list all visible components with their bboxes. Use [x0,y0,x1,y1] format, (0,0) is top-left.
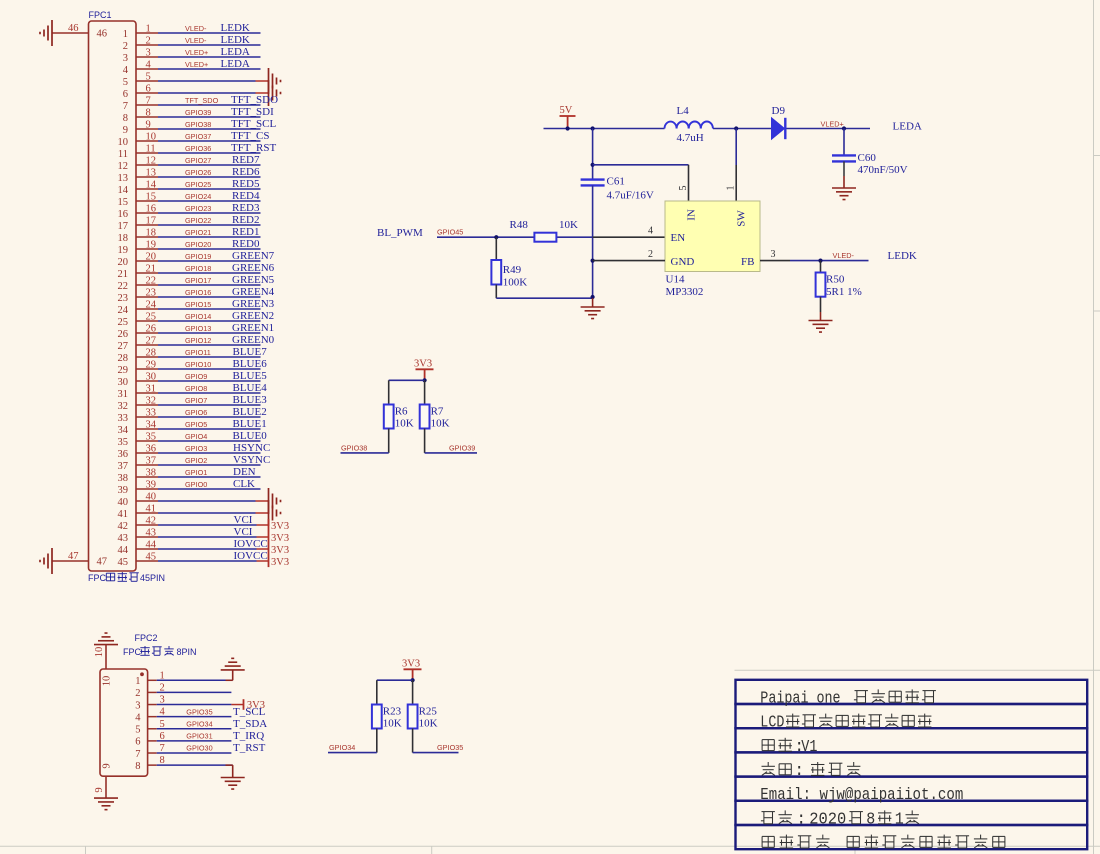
port IOVCC [234,538,268,550]
port RED4 [232,190,260,202]
svg-text:BLUE7: BLUE7 [233,346,268,358]
R49 value 100K [503,277,528,289]
port T_SCL [233,706,266,718]
ground above FPC2 pin 1 (inverted) [221,658,245,680]
svg-text:9: 9 [123,125,128,136]
U14 pin 5 (IN) [678,165,689,201]
svg-text:RED1: RED1 [232,226,260,238]
R50 value 5R1 1% [826,286,862,298]
FPC2 pin 7 wire [148,752,232,754]
port BLUE0 [233,430,268,442]
svg-text:36: 36 [118,449,129,460]
C60 label [858,152,877,164]
svg-text:GPIO30: GPIO30 [186,744,212,753]
FPC1 pin 15 number [118,192,157,208]
svg-text:TFT_RST: TFT_RST [231,142,277,154]
svg-text:21: 21 [118,269,129,280]
FPC1 pin 38 number [118,468,157,484]
svg-text:4: 4 [160,707,166,718]
FPC1 pin 13 number [118,168,157,184]
svg-text:T_RST: T_RST [233,742,266,754]
svg-text:14: 14 [118,185,129,196]
ground (sideways) [269,68,281,94]
FPC2 pin 6 number [135,731,165,748]
port GREEN5 [232,274,275,286]
wire below C61 [592,185,594,298]
svg-text:GPIO8: GPIO8 [185,384,207,393]
FPC1 pin 41 wire [136,512,269,514]
R48 value 10K [559,219,578,231]
FPC2 pin 5 wire [148,728,232,730]
ground under C60 [832,176,856,200]
net label GPIO30 [186,744,212,753]
svg-text:1: 1 [160,670,165,681]
port VSYNC [233,454,270,466]
net label VLED+ [185,48,208,57]
net label GPIO35 [437,743,463,752]
svg-text:27: 27 [118,341,129,352]
svg-text:2: 2 [648,249,653,260]
svg-text:23: 23 [146,288,157,299]
net label GPIO45 [437,228,463,237]
svg-text:RED2: RED2 [232,214,260,226]
resistor R49 [491,237,501,298]
svg-text:28: 28 [146,348,157,359]
resistor R7 [420,380,430,453]
C60 value 470nF/50V [858,164,908,176]
FPC1 pin 23 number [118,288,157,304]
svg-text:42: 42 [118,521,129,532]
svg-text:GREEN7: GREEN7 [232,250,275,262]
port TFT_SDI [231,106,274,118]
wire R49 bottom to ground rail [496,295,594,299]
U14 pin 4 number [648,226,653,237]
svg-text:BLUE3: BLUE3 [233,394,268,406]
svg-text:DEN: DEN [233,466,256,478]
FPC2 pin 2 number [135,682,165,699]
net label GPIO23 [185,204,211,213]
title row 5: Email wjw@paipaiiot.com [760,785,963,804]
FPC1 pin 22 wire [136,284,261,286]
net label GPIO26 [185,168,211,177]
svg-text:7: 7 [123,101,128,112]
svg-text:T_IRQ: T_IRQ [233,730,264,742]
power 3V3 [269,543,290,556]
FPC1 pin 34 number [118,420,157,436]
net label VLED- [833,251,855,260]
svg-text:9: 9 [102,763,113,768]
svg-text:3: 3 [160,695,165,706]
svg-text:CLK: CLK [233,478,255,490]
FPC1 pin 33 number [118,408,157,424]
svg-text:VLED-: VLED- [833,251,855,260]
port BL_PWM [377,227,423,239]
svg-text:VLED+: VLED+ [185,60,208,69]
svg-text:17: 17 [118,221,129,232]
svg-text:GPIO19: GPIO19 [185,252,211,261]
svg-text:R25: R25 [419,706,438,718]
svg-text:FB: FB [741,256,754,268]
svg-text:46: 46 [68,23,79,34]
net label GPIO37 [185,132,211,141]
svg-text:R50: R50 [826,274,845,286]
svg-text:GPIO13: GPIO13 [185,324,211,333]
svg-text:IOVCC: IOVCC [234,550,268,562]
svg-text:37: 37 [118,461,129,472]
svg-text:GPIO34: GPIO34 [186,719,212,728]
svg-text:4: 4 [123,65,129,76]
svg-text:R7: R7 [431,406,444,418]
svg-text:BLUE0: BLUE0 [233,430,268,442]
wire 3V3 to R23 [377,679,413,681]
FPC1 pin 27 number [118,336,157,352]
svg-text:3V3: 3V3 [402,659,420,670]
svg-text:U14: U14 [666,274,685,286]
net label GPIO11 [185,348,211,357]
svg-text:FPC: FPC [123,647,142,657]
connector FPC1 body [89,21,137,571]
svg-text:34: 34 [146,420,157,431]
FPC1 pin 2 wire [136,44,261,46]
FPC1 pin 37 number [118,456,157,472]
port GREEN6 [232,262,275,274]
FPC1 pin 2 number [123,36,151,52]
svg-text:GPIO39: GPIO39 [185,108,211,117]
svg-text:LEDA: LEDA [893,121,922,133]
power 3V3 [269,519,290,532]
title row 4: author [762,761,861,780]
svg-text:GPIO0: GPIO0 [185,480,207,489]
svg-text:GPIO38: GPIO38 [341,443,367,452]
svg-text:20: 20 [146,252,157,263]
net label GPIO39 [449,443,475,452]
svg-text:GPIO2: GPIO2 [185,456,207,465]
net label GPIO34 [186,719,212,728]
port TFT_RST [231,142,277,154]
svg-text:RED5: RED5 [232,178,260,190]
net label GPIO16 [185,288,211,297]
FPC2 pin 4 wire [148,716,232,718]
FPC2 pin 8 wire [148,764,233,766]
FPC2 pin 5 number [135,719,165,736]
svg-text:10: 10 [102,676,113,687]
svg-text:TFT_SDO: TFT_SDO [231,94,278,106]
svg-text:1: 1 [146,24,151,35]
svg-text:29: 29 [118,365,129,376]
svg-text:24: 24 [118,305,129,316]
svg-text:VCI: VCI [234,526,253,538]
svg-text:10: 10 [146,132,157,143]
port GREEN0 [232,334,275,346]
FPC1 pin 1 wire [136,32,261,34]
svg-text:41: 41 [146,504,157,515]
svg-text:21: 21 [146,264,157,275]
svg-text:8: 8 [146,108,151,119]
FPC2 inside pin 9 number [102,763,113,768]
net label VLED- [185,24,207,33]
FPC1 pin 11 wire [136,152,261,154]
FPC1 pin 9 wire [136,128,261,130]
port BLUE2 [233,406,267,418]
ground (sideways) [269,80,281,106]
FPC2 pin 1 marker dot [140,672,144,676]
svg-text:IOVCC: IOVCC [234,538,268,550]
svg-text:22: 22 [118,281,129,292]
svg-text:4: 4 [135,712,141,723]
svg-text:TFT_CS: TFT_CS [231,130,270,142]
svg-text:31: 31 [118,389,129,400]
svg-text::: : [796,809,806,828]
svg-text:TFT_SDO: TFT_SDO [185,96,219,105]
port BLUE3 [233,394,268,406]
svg-text:GPIO35: GPIO35 [437,743,463,752]
port TFT_SCL [231,118,277,130]
FPC1 pin 7 number [123,96,151,112]
FPC1 pin 32 number [118,396,157,412]
U14 pin 2 (GND) wire [591,249,666,263]
svg-text:18: 18 [146,228,157,239]
svg-text:43: 43 [118,533,129,544]
svg-text:11: 11 [118,149,128,160]
svg-text:10K: 10K [395,418,414,430]
FPC1 pin 29 number [118,360,157,376]
svg-text:32: 32 [118,401,129,412]
svg-text:6: 6 [135,737,140,748]
svg-text:GPIO23: GPIO23 [185,204,211,213]
FPC2 pin 3 wire [148,704,244,706]
U14 value MP3302 [666,286,704,298]
net label GPIO14 [185,312,211,321]
junction C61 branch [591,126,595,130]
svg-text:13: 13 [118,173,129,184]
net label GPIO5 [185,420,207,429]
FPC1 pin 30 number [118,372,157,388]
svg-text:L4: L4 [677,105,690,117]
svg-text:38: 38 [118,473,129,484]
svg-text:V1: V1 [801,737,817,756]
net label GPIO21 [185,228,211,237]
port T_SDA [233,718,267,730]
svg-text:BLUE4: BLUE4 [233,382,268,394]
svg-text:GPIO36: GPIO36 [185,144,211,153]
net label GPIO4 [185,432,207,441]
svg-text:5: 5 [678,186,689,191]
L4 value 4.7uH [677,132,704,144]
svg-text:VCI: VCI [234,514,253,526]
svg-text:5: 5 [160,719,165,730]
FPC1 pin 40 wire [136,500,269,502]
ground (left) [40,548,52,574]
svg-text:32: 32 [146,396,157,407]
svg-text:18: 18 [118,233,129,244]
svg-text:25: 25 [118,317,129,328]
R23 value 10K [383,718,402,730]
svg-text:4.7uH: 4.7uH [677,132,704,144]
svg-text:GPIO35: GPIO35 [186,707,212,716]
FPC1 pin 5 number [123,72,151,88]
svg-text:2: 2 [160,682,165,693]
svg-text:43: 43 [146,528,157,539]
net label GPIO1 [185,468,207,477]
svg-text:4: 4 [648,226,653,237]
FPC2 pin 7 number [135,743,165,760]
svg-text:46: 46 [97,29,108,40]
port CLK [233,478,255,490]
wire 5V rail [544,128,871,130]
svg-text:GPIO15: GPIO15 [185,300,211,309]
FPC1 pin 28 wire [136,356,261,358]
svg-text:41: 41 [118,509,129,520]
net label GPIO10 [185,360,211,369]
title block frame [736,680,1088,849]
port RED6 [232,166,260,178]
svg-text:3: 3 [146,48,151,59]
FPC1 pin 17 number [118,216,157,232]
net label GPIO18 [185,264,211,273]
svg-text:24: 24 [146,300,157,311]
svg-text:GPIO1: GPIO1 [185,468,207,477]
svg-text:3: 3 [135,700,140,711]
svg-text:3V3: 3V3 [271,557,289,568]
FPC1 pin 21 number [118,264,157,280]
svg-text:11: 11 [146,144,156,155]
connector FPC2 body [100,669,148,776]
svg-text:14: 14 [146,180,157,191]
ground (left) [40,20,52,46]
net label VLED+ [821,119,844,128]
power 3V3 (R6/R7) [414,359,434,383]
net label GPIO36 [185,144,211,153]
svg-text:10K: 10K [383,718,402,730]
svg-text:3V3: 3V3 [271,545,289,556]
port RED7 [232,154,260,166]
svg-text:D9: D9 [772,105,786,117]
svg-text:GPIO9: GPIO9 [185,372,207,381]
svg-text:VSYNC: VSYNC [233,454,270,466]
svg-text:2020: 2020 [809,809,846,828]
svg-text:25: 25 [146,312,157,323]
U14 pin 1 (SW) [726,129,737,202]
capacitor C60 [832,129,856,177]
svg-text:26: 26 [146,324,157,335]
FPC2 pin 3 number [135,695,165,712]
power 3V3 [269,531,290,544]
FPC1 pin 3 wire [136,56,261,58]
R23 label [383,706,402,718]
net label GPIO9 [185,372,207,381]
svg-text:2: 2 [123,41,128,52]
title row 3: version V1 [762,737,817,756]
FPC2 pin 1 wire [148,679,233,681]
net label GPIO0 [185,480,207,489]
net label GPIO39 [185,108,211,117]
svg-text:33: 33 [118,413,129,424]
FPC2 pin 4 number [135,707,165,724]
ground (sideways) [269,488,281,514]
op-amp U14 MP3302 body [665,201,760,272]
svg-text:BL_PWM: BL_PWM [377,227,423,239]
svg-text:R49: R49 [503,264,522,276]
svg-text:35: 35 [118,437,129,448]
svg-text:GPIO6: GPIO6 [185,408,207,417]
svg-text:47: 47 [97,557,108,568]
FPC1 pin 32 wire [136,404,261,406]
port LEDA [893,121,922,133]
title row 1: Paipai one (device schematic) [760,688,936,707]
net label GPIO22 [185,216,211,225]
FPC1 pin 39 number [118,480,157,496]
port LEDK [221,34,250,46]
svg-text:TFT_SDI: TFT_SDI [231,106,274,118]
port BLUE7 [233,346,268,358]
svg-text:GPIO16: GPIO16 [185,288,211,297]
FPC1 pin 45 number [118,552,157,568]
FPC1 pin 41 number [118,504,157,520]
junction SW branch [734,126,738,130]
svg-text:45: 45 [146,552,157,563]
wire R6 to GPIO38 [341,452,389,454]
svg-text:36: 36 [146,444,157,455]
FPC1 pin 43 wire [136,536,269,538]
FPC1 pin 10 number [118,132,157,148]
FPC1 pin 3 number [123,48,151,64]
power 5V [560,105,576,131]
svg-text:35: 35 [146,432,157,443]
FPC1 pin 14 number [118,180,157,196]
svg-text:9: 9 [94,787,105,792]
svg-text:C61: C61 [607,176,625,188]
FPC1 pin 19 wire [136,248,261,250]
svg-text:LEDA: LEDA [221,46,250,58]
svg-text:LEDK: LEDK [888,250,917,262]
svg-text:30: 30 [146,372,157,383]
svg-text:GPIO27: GPIO27 [185,156,211,165]
U14 pin 3 (FB) wire [760,249,869,261]
FPC1 pin 34 wire [136,428,261,430]
FPC2 inside pin 10 number [102,676,113,687]
net label GPIO27 [185,156,211,165]
svg-text:EN: EN [671,232,686,244]
FPC1 pin 9 number [123,120,151,136]
title row 7: all rights reserved, no reproduction [762,835,1005,848]
svg-text:2: 2 [146,36,151,47]
FPC1 pin 10 wire [136,140,261,142]
svg-text:8PIN: 8PIN [177,647,197,657]
FPC1 pin 11 number [118,144,156,160]
port RED1 [232,226,260,238]
ground under R50 [809,312,833,332]
svg-text:R48: R48 [510,219,529,231]
FPC1 pin 26 wire [136,332,261,334]
FPC1 pin 13 wire [136,176,261,178]
R25 value 10K [419,718,438,730]
FPC1 pin 36 wire [136,452,261,454]
C61 label [607,176,625,188]
ground under U14 [581,298,605,318]
svg-text:6: 6 [123,89,128,100]
L4 label [677,105,690,117]
svg-text:RED3: RED3 [232,202,260,214]
wire R23 to GPIO34 [328,752,377,754]
svg-text:VLED+: VLED+ [821,119,844,128]
svg-text:GPIO24: GPIO24 [185,192,211,201]
resistor R50 [816,261,826,312]
svg-text:3V3: 3V3 [271,533,289,544]
net label GPIO38 [341,443,367,452]
net label GPIO25 [185,180,211,189]
svg-text:GPIO37: GPIO37 [185,132,211,141]
svg-text:7: 7 [135,749,140,760]
